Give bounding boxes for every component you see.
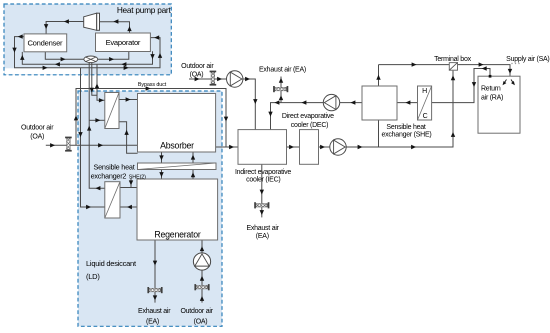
svg-text:SHE(2): SHE(2)	[129, 175, 146, 181]
svg-text:Sensible heat: Sensible heat	[386, 124, 425, 131]
svg-text:H: H	[422, 88, 427, 95]
svg-text:Exhaust air: Exhaust air	[246, 225, 279, 232]
svg-text:exchanger2: exchanger2	[91, 172, 127, 181]
svg-text:exchanger (SHE): exchanger (SHE)	[382, 132, 432, 139]
svg-text:Outdoor air: Outdoor air	[21, 125, 54, 132]
svg-text:(OA): (OA)	[30, 134, 44, 141]
svg-text:(EA): (EA)	[256, 233, 269, 240]
svg-text:Direct evaporative: Direct evaporative	[282, 113, 334, 120]
svg-text:C: C	[423, 113, 428, 120]
svg-text:(EA): (EA)	[146, 319, 159, 326]
svg-text:Exhaust air: Exhaust air	[138, 308, 171, 315]
svg-text:Condenser: Condenser	[27, 39, 63, 48]
svg-text:Supply air (SA): Supply air (SA)	[506, 56, 549, 63]
svg-text:cooler (IEC): cooler (IEC)	[246, 177, 280, 184]
svg-text:Liquid desiccant: Liquid desiccant	[86, 259, 137, 268]
svg-text:Exhaust air (EA): Exhaust air (EA)	[259, 67, 306, 74]
svg-text:(OA): (OA)	[194, 319, 208, 326]
svg-text:Outdoor air: Outdoor air	[180, 308, 213, 315]
svg-text:Sensible heat: Sensible heat	[94, 162, 135, 171]
svg-text:Return: Return	[481, 85, 501, 92]
svg-text:Absorber: Absorber	[160, 140, 194, 150]
svg-text:Evaporator: Evaporator	[106, 38, 141, 47]
svg-text:(LD): (LD)	[86, 272, 100, 281]
svg-text:Bypass duct: Bypass duct	[138, 82, 167, 88]
svg-text:Outdoor air: Outdoor air	[181, 63, 214, 70]
svg-text:Indirect evaporative: Indirect evaporative	[235, 169, 291, 176]
svg-text:cooler (DEC): cooler (DEC)	[291, 122, 328, 129]
svg-text:air (RA): air (RA)	[481, 94, 503, 101]
svg-text:Terminal box: Terminal box	[434, 56, 471, 63]
svg-text:(OA): (OA)	[190, 71, 204, 78]
svg-text:Heat pump part: Heat pump part	[117, 5, 172, 15]
svg-text:Regenerator: Regenerator	[154, 229, 200, 239]
